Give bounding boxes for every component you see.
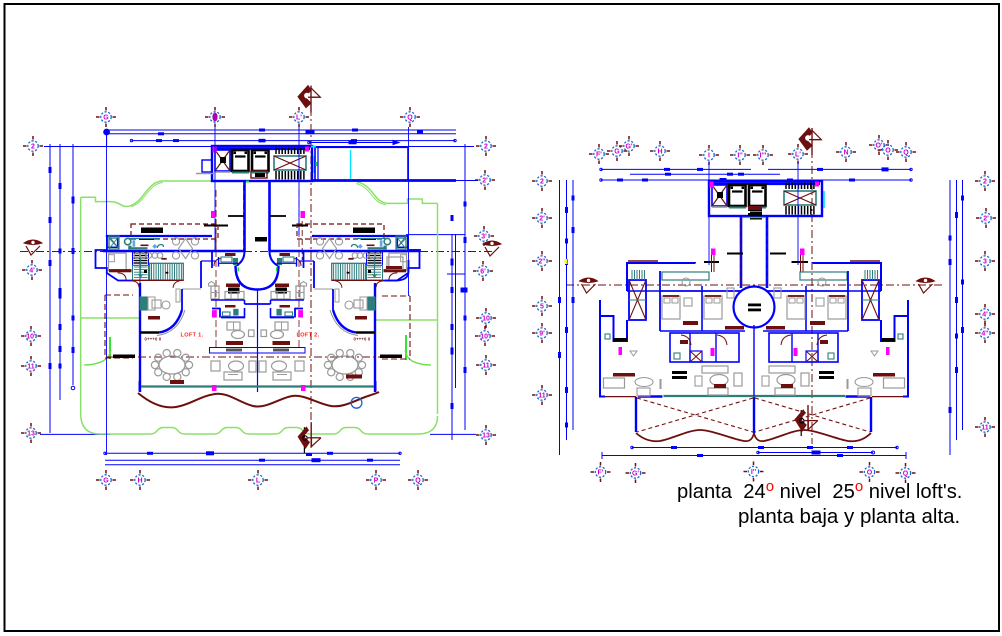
left plan bottom dimension lines bbox=[104, 451, 401, 465]
svg-text:2'': 2'' bbox=[538, 259, 546, 266]
left plan green site boundary east bbox=[356, 182, 438, 414]
right plan bed 2 bbox=[704, 288, 744, 330]
left plan terrace maroon bar west bbox=[170, 380, 184, 384]
svg-text:4': 4' bbox=[29, 268, 35, 275]
right plan upper band outline bbox=[627, 261, 881, 291]
left plan extension line L' bbox=[298, 126, 300, 235]
right plan bed 1 bbox=[662, 278, 698, 325]
right plan west wing lower bbox=[600, 300, 663, 397]
left plan right vertical dimension lines bbox=[406, 144, 468, 440]
left plan grid bubble 13 right bbox=[476, 425, 496, 445]
svg-text:Q: Q bbox=[903, 150, 909, 157]
svg-text:4'': 4'' bbox=[981, 331, 989, 338]
left plan dashed floor projection bbox=[105, 295, 410, 359]
caption line 2 bbox=[738, 505, 960, 528]
left plan east wing rooms bbox=[316, 236, 419, 288]
right plan north arrow bbox=[799, 128, 822, 155]
left plan LOFT 1 label bbox=[181, 333, 204, 339]
svg-text:2: 2 bbox=[983, 179, 987, 186]
svg-text:G: G bbox=[614, 149, 620, 156]
left plan corridor door ticks bbox=[204, 171, 308, 242]
left plan bottom grid bubble P bbox=[366, 470, 386, 490]
left plan dining table west bbox=[151, 350, 192, 381]
right plan deck X brace west bbox=[637, 398, 753, 432]
left plan lobby semicircle bbox=[236, 266, 279, 290]
right plan corridor walls bbox=[741, 217, 768, 289]
right plan bedroom band walls bbox=[660, 271, 848, 331]
right plan bottom grid bubble Q bbox=[896, 463, 916, 483]
right plan core base marks bbox=[743, 206, 766, 220]
left plan grid bubble 4' left bbox=[22, 260, 42, 280]
left plan extension line Q bbox=[408, 127, 410, 296]
right plan deck wavy edge bbox=[636, 430, 871, 441]
svg-text:3': 3' bbox=[481, 234, 487, 241]
svg-text:LOFT 2.: LOFT 2. bbox=[297, 333, 320, 339]
left plan gridline 10 dash-dot bbox=[106, 356, 400, 358]
right plan center divider lower bbox=[753, 325, 755, 396]
left plan bottom grid bubble L bbox=[248, 470, 268, 490]
svg-text:H: H bbox=[137, 478, 142, 485]
right plan grid bubble 5 left bbox=[532, 296, 552, 316]
left plan inner unit west bbox=[209, 253, 271, 318]
left plan top annex dimension line bbox=[308, 140, 399, 144]
right plan black equals marks bbox=[672, 371, 834, 379]
right plan bed 3 bbox=[766, 288, 805, 330]
svg-text:Q: Q bbox=[903, 471, 909, 478]
svg-text:13: 13 bbox=[482, 433, 490, 440]
svg-text:6': 6' bbox=[480, 269, 486, 276]
left plan grid bubble L' top bbox=[289, 107, 309, 127]
right plan horizontal section dash-dot bbox=[566, 284, 944, 286]
left plan grid bubble 6' right bbox=[473, 261, 493, 281]
left plan entry walls bbox=[182, 259, 333, 290]
left plan terrace teal edge bbox=[140, 381, 376, 392]
left plan north arrow bbox=[298, 86, 321, 113]
svg-text:2: 2 bbox=[31, 144, 35, 151]
right plan grid bubble 11 left bbox=[532, 385, 552, 405]
left plan center divider bbox=[257, 289, 259, 392]
svg-text:Q: Q bbox=[407, 115, 413, 122]
svg-text:2': 2' bbox=[539, 216, 545, 223]
left plan west wing bathroom mirror bbox=[109, 236, 119, 249]
left plan grid bubble 10' left bbox=[21, 326, 41, 346]
left plan grid bubble 2' right bbox=[475, 170, 495, 190]
right plan bottom grid bubble O bbox=[860, 462, 880, 482]
svg-text:0+++0 0: 0+++0 0 bbox=[145, 337, 162, 342]
left plan dining sideboard east bbox=[346, 375, 362, 379]
left plan red micro text east bbox=[354, 337, 371, 342]
svg-text:I: I bbox=[708, 153, 710, 160]
left plan annex room east of core bbox=[311, 147, 478, 181]
svg-text:10': 10' bbox=[480, 334, 490, 341]
left plan grid bubble Q top bbox=[400, 107, 420, 127]
svg-text:Q: Q bbox=[415, 478, 421, 485]
left plan balcony rail bbox=[210, 341, 306, 353]
svg-text:3: 3 bbox=[983, 259, 987, 266]
right plan stairwell east bbox=[862, 270, 879, 320]
right plan grid bubble 2' left bbox=[532, 208, 552, 228]
svg-text:11: 11 bbox=[482, 363, 490, 370]
left plan second dimension line bbox=[130, 139, 456, 143]
left plan south arrow bbox=[298, 422, 321, 453]
left plan top dimension line pair with end dot bbox=[104, 129, 456, 147]
right plan eye arrow right bbox=[917, 278, 935, 293]
right plan living furniture east bbox=[762, 366, 809, 395]
svg-text:10': 10' bbox=[26, 334, 36, 341]
left plan grid bubble 10 right bbox=[476, 308, 496, 328]
right plan extension lines bbox=[709, 162, 798, 265]
left plan horizontal section dash-dot line bbox=[20, 251, 493, 253]
left plan east wing bathroom bbox=[385, 236, 420, 281]
svg-text:O: O bbox=[867, 470, 873, 477]
left plan lobby mouth bbox=[237, 251, 278, 266]
svg-text:2': 2' bbox=[482, 178, 488, 185]
right plan grid bubble 4' right bbox=[975, 304, 995, 324]
svg-text:LOFT 1.: LOFT 1. bbox=[181, 333, 204, 339]
left plan eye arrow right bbox=[483, 241, 501, 256]
right plan eye arrow left bbox=[580, 278, 598, 293]
right plan top grid bubbles bbox=[589, 135, 916, 165]
right plan bottom dimension lines bbox=[602, 446, 906, 459]
right plan grid bubble 9' left bbox=[532, 323, 552, 343]
left plan extension line I bbox=[214, 126, 216, 251]
left plan grid line 13 extension west bbox=[40, 433, 110, 435]
right plan deck X brace east bbox=[755, 398, 870, 432]
svg-text:O: O bbox=[885, 148, 891, 155]
left plan extension line H bbox=[139, 255, 141, 283]
left plan grid line 2 horizontal bbox=[44, 146, 474, 148]
left plan left vertical dimension lines bbox=[49, 144, 75, 433]
right plan bed 4 bbox=[810, 278, 846, 325]
left plan grid bubble G top bbox=[96, 107, 116, 127]
left plan loft east furniture bbox=[345, 297, 375, 320]
svg-text:9': 9' bbox=[539, 331, 545, 338]
right plan deck outline bbox=[636, 397, 871, 433]
caption line 1 bbox=[677, 478, 962, 503]
svg-text:2: 2 bbox=[484, 144, 488, 151]
left plan corridor walls bbox=[245, 181, 270, 251]
right plan living furniture west bbox=[695, 366, 742, 395]
right plan bottom grid bubble F' bbox=[591, 462, 611, 482]
svg-text:I'': I'' bbox=[751, 469, 757, 476]
left plan awning circle symbol bbox=[351, 397, 362, 408]
left plan grid bubble 2 right bbox=[476, 136, 496, 156]
svg-text:O': O' bbox=[875, 143, 882, 150]
svg-text:G: G bbox=[103, 478, 109, 485]
right plan grid bubble 3 right bbox=[975, 251, 995, 271]
svg-text:P: P bbox=[374, 478, 379, 485]
left plan green under core bbox=[244, 180, 316, 182]
right plan grid bubble 2'' left bbox=[532, 251, 552, 271]
right plan grid bubble 4'' right bbox=[975, 323, 995, 343]
left plan LOFT 2 label bbox=[297, 333, 320, 339]
left plan bedroom walls by corridor bbox=[212, 251, 304, 268]
left plan grid bubble 11 right bbox=[476, 355, 496, 375]
left plan loft axis dash-dot east bbox=[298, 190, 300, 347]
right plan teal upper bands bbox=[662, 272, 847, 280]
left plan green accents east bbox=[375, 320, 437, 365]
left plan grid bubble I top filled bbox=[205, 107, 225, 127]
right plan bathroom band east bbox=[769, 333, 838, 362]
left plan green site boundary west bbox=[81, 181, 212, 414]
svg-text:10: 10 bbox=[482, 316, 490, 323]
svg-text:13: 13 bbox=[27, 431, 35, 438]
svg-text:2: 2 bbox=[540, 179, 544, 186]
right plan grid bubble 2 right bbox=[975, 171, 995, 191]
svg-text:L': L' bbox=[795, 152, 801, 159]
left plan loft outer wall east bbox=[330, 283, 375, 392]
left plan bedroom level wall bbox=[103, 250, 420, 252]
svg-text:5: 5 bbox=[540, 304, 544, 311]
svg-text:F': F' bbox=[596, 152, 602, 159]
svg-text:I'': I'' bbox=[737, 153, 743, 160]
left plan corridor axis dashes bbox=[216, 185, 302, 260]
left plan grid line 13 extension east bbox=[430, 433, 476, 435]
left plan grid bubble 2 left bbox=[23, 136, 43, 156]
svg-text:4': 4' bbox=[982, 312, 988, 319]
left plan inner unit east bbox=[245, 253, 307, 318]
left plan loft axis dash-dot west bbox=[215, 190, 217, 347]
svg-text:11: 11 bbox=[27, 364, 35, 371]
left plan grid bubble 13 left bbox=[21, 423, 41, 443]
right plan top dimension lines bbox=[600, 167, 912, 182]
right plan core black equals bbox=[748, 208, 762, 216]
left plan magenta door marks terrace bbox=[212, 385, 306, 391]
right plan ground band walls bbox=[664, 395, 846, 397]
right plan bottom grid bubble G' bbox=[626, 463, 646, 483]
left plan dining table east bbox=[324, 350, 365, 381]
right plan right vertical dimension lines bbox=[949, 180, 965, 455]
left plan vertical section dash-dot line bbox=[310, 108, 312, 448]
left plan loft west furniture bbox=[140, 297, 170, 320]
left plan west wing rooms bbox=[96, 236, 199, 288]
right plan bottom grid bubble I'' bbox=[744, 462, 764, 482]
svg-text:2': 2' bbox=[983, 216, 989, 223]
left plan bottom grid bubble Q bbox=[408, 470, 428, 490]
svg-text:F': F' bbox=[598, 470, 604, 477]
right plan corridor door ticks bbox=[704, 249, 808, 273]
svg-text:L: L bbox=[256, 478, 261, 485]
svg-text:G: G bbox=[103, 115, 109, 122]
right plan east wing lower bbox=[846, 300, 909, 397]
svg-text:11: 11 bbox=[981, 425, 989, 432]
left plan red micro text west bbox=[145, 337, 162, 342]
right plan grid bubble 2 left bbox=[532, 171, 552, 191]
left plan grid bubble 11 left bbox=[21, 356, 41, 376]
left plan grid bubble 10' right bbox=[475, 326, 495, 346]
left plan elevator core bbox=[196, 146, 314, 181]
svg-text:G': G' bbox=[625, 144, 632, 151]
svg-text:G': G' bbox=[632, 471, 639, 478]
right plan lobby circle bbox=[734, 287, 775, 328]
right plan grid bubble 11 right bbox=[975, 417, 995, 437]
svg-text:I''': I''' bbox=[760, 153, 767, 160]
left plan upper dashed projection east bbox=[297, 224, 384, 239]
svg-text:0+++0 0: 0+++0 0 bbox=[354, 337, 371, 342]
right plan south arrow bbox=[795, 405, 818, 436]
right plan left vertical dimension lines bbox=[558, 180, 575, 455]
left plan grid bubble 3' right bbox=[474, 226, 494, 246]
right plan stairwell west bbox=[629, 270, 646, 320]
right plan bathroom band west bbox=[670, 333, 739, 362]
left plan upper band top wall bbox=[106, 235, 408, 237]
right plan grid bubble 2' right bbox=[976, 208, 996, 228]
left plan upper dashed projection west bbox=[131, 224, 218, 239]
left plan black bars outside bbox=[113, 355, 402, 359]
right plan elevator core bbox=[709, 181, 824, 216]
left plan bottom grid bubble G bbox=[96, 470, 116, 490]
right plan vertical section dash-dot line bbox=[811, 150, 813, 444]
left plan central furniture bbox=[211, 322, 304, 380]
left plan loft outer wall west bbox=[140, 283, 185, 392]
svg-text:H: H bbox=[657, 149, 662, 156]
svg-text:planta baja y planta alta.: planta baja y planta alta. bbox=[738, 505, 960, 528]
left plan extension line G bbox=[106, 134, 108, 455]
left plan awning wavy line bbox=[138, 392, 379, 407]
svg-text:11: 11 bbox=[538, 393, 546, 400]
left plan eye arrow left bbox=[24, 240, 42, 255]
left plan bottom grid bubble H bbox=[130, 470, 150, 490]
svg-text:planta 24o nivel 25o nivel l: planta 24o nivel 25o nivel loft's. bbox=[677, 478, 962, 503]
svg-text:L': L' bbox=[296, 115, 302, 122]
left plan green site boundary bottom bbox=[81, 414, 438, 434]
svg-text:N: N bbox=[843, 150, 848, 157]
left plan green accents west bbox=[81, 318, 140, 365]
